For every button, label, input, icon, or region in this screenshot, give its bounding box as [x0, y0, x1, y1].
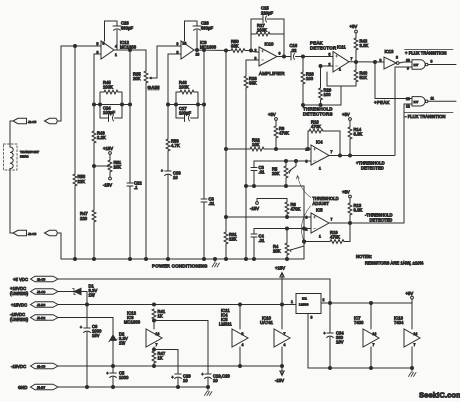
resistor R26 33K [244, 60, 257, 259]
svg-text:+5 VDC: +5 VDC [13, 277, 28, 282]
junction R5 wiper top [295, 160, 298, 163]
opamp power IC10 UA741 [260, 305, 290, 367]
svg-text:7: 7 [351, 57, 353, 61]
resistor R9 470K [274, 120, 289, 149]
svg-text:1K: 1K [158, 356, 163, 361]
power +5V terminal [406, 291, 414, 303]
svg-text:J2-C5: J2-C5 [28, 120, 37, 124]
wire logic gnd rail [308, 367, 412, 369]
svg-text:3.3K: 3.3K [360, 43, 369, 48]
junction rail R31 [225, 258, 228, 261]
wire R41 node to filter [154, 320, 208, 322]
wire IC11 pin2 [321, 65, 334, 67]
junction R31 tap [225, 49, 228, 52]
junction net out [129, 103, 132, 106]
power arrow +15V [275, 266, 285, 305]
svg-text:TRANSPORT: TRANSPORT [20, 150, 39, 154]
svg-text:51K: 51K [360, 75, 368, 80]
wire +peak [375, 62, 412, 99]
wire network2 mid [168, 104, 204, 106]
svg-text:4: 4 [284, 343, 286, 347]
svg-text:- FLUX TRANSITION: - FLUX TRANSITION [405, 114, 446, 119]
svg-text:+15V: +15V [103, 146, 113, 151]
wire pin1 bus [327, 72, 356, 86]
svg-text:220pF: 220pF [261, 11, 274, 16]
junction lgnd 7400 [370, 367, 373, 370]
svg-text:DETECTORS: DETECTORS [303, 112, 333, 117]
power -15V threshold [250, 199, 287, 212]
wire pin9 riser [394, 67, 396, 156]
op-amp IC11 peak detector [329, 45, 353, 73]
junction IC12 fb left [93, 103, 96, 106]
wire GND rail [58, 386, 208, 388]
svg-text:2: 2 [306, 228, 308, 232]
junction net2 left [175, 103, 178, 106]
junction pin7 branch [153, 348, 156, 351]
inverter IC13 [380, 49, 400, 69]
junction rail R47 [93, 258, 96, 261]
potentiometer R35 20K GAIN [133, 50, 160, 259]
svg-text:DETECTED: DETECTED [370, 218, 393, 223]
wire IC5 output [329, 222, 404, 224]
comparator IC5 [306, 208, 333, 239]
svg-text:100: 100 [306, 76, 314, 81]
capacitor C15 220pF feedback [251, 6, 284, 51]
svg-text:33K: 33K [249, 81, 257, 86]
svg-text:100: 100 [324, 92, 332, 97]
svg-text:14: 14 [373, 332, 377, 336]
resistor R29 100 [319, 66, 332, 105]
svg-text:3: 3 [103, 42, 105, 46]
junction net right [121, 103, 124, 106]
svg-text:10: 10 [183, 378, 188, 383]
junction pin2 R4 [286, 227, 289, 230]
regulator IC1 LM309 [291, 294, 325, 320]
junction IC8 fb right col [196, 49, 199, 52]
resistor R58 22K [73, 46, 86, 259]
power +5V R9 [268, 112, 277, 120]
wire mid bus [246, 185, 304, 187]
connector J1-C8 -15VDC [11, 363, 58, 369]
resistor R13 3.3K [348, 198, 362, 223]
resistor R6 470K [285, 202, 301, 217]
svg-text:14: 14 [414, 332, 418, 336]
junction R13 node [349, 222, 352, 225]
svg-text:IC4: IC4 [316, 140, 323, 145]
svg-text:+5V: +5V [268, 112, 276, 117]
svg-text:680pF: 680pF [121, 26, 134, 31]
wire IC4 pin3 [254, 160, 311, 162]
svg-text:7400: 7400 [354, 320, 364, 325]
capacitor C27 100pF [176, 106, 198, 122]
wire nand2 pin12 [404, 103, 412, 105]
resistor R18 470K [308, 120, 340, 156]
svg-text:470K: 470K [311, 124, 321, 129]
svg-text:6: 6 [279, 52, 281, 56]
svg-text:+: + [107, 372, 109, 376]
svg-text:10V: 10V [336, 340, 344, 345]
wire -15V rail [58, 365, 282, 367]
resistor R56 4.7K [166, 139, 180, 172]
resistor R27 100K feedback [251, 23, 284, 36]
svg-text:J1-C5: J1-C5 [37, 278, 46, 282]
potentiometer R51 20K [94, 146, 122, 188]
comparator power IC11 IC4 IC5 LM311 [219, 305, 248, 367]
wire into IC10 pin2 [251, 51, 259, 53]
svg-text:1: 1 [319, 235, 321, 239]
capacitor C6 1000 15V [80, 305, 102, 388]
junction rail C22 [129, 258, 132, 261]
capacitor C8 .01 [201, 197, 215, 260]
wire out column to network [129, 50, 131, 105]
resistor R47 1K power [152, 347, 166, 366]
svg-text:13: 13 [406, 97, 410, 101]
svg-text:-15V: -15V [250, 206, 259, 211]
junction R6 bottom [286, 216, 289, 219]
svg-text:IC7: IC7 [414, 100, 419, 104]
junction R28 bottom [302, 104, 305, 107]
svg-text:MC1303: MC1303 [124, 320, 141, 325]
svg-text:2: 2 [255, 49, 257, 53]
junction pin3 tap [225, 216, 228, 219]
resistor R47 220 [80, 166, 96, 259]
junction rail R35 [145, 258, 148, 261]
junction IC10 out [283, 55, 286, 58]
svg-text:POWER CONDITIONING: POWER CONDITIONING [152, 264, 208, 269]
junction gnd C5 [112, 386, 115, 389]
junction input node [74, 45, 77, 48]
wire IC13 out to nand [399, 62, 412, 63]
junction R5 top [285, 160, 288, 163]
svg-text:+: + [324, 332, 326, 336]
svg-text:33K: 33K [231, 44, 239, 49]
wire head lower lead [9, 169, 11, 233]
junction offset node [93, 165, 96, 168]
svg-text:IC1: IC1 [302, 297, 307, 301]
svg-text:3: 3 [329, 53, 331, 57]
svg-text:220: 220 [80, 216, 88, 221]
capacitor C4 .01 [251, 229, 265, 260]
svg-text:20K: 20K [133, 76, 141, 81]
svg-text:8: 8 [396, 56, 398, 60]
junction rail R41 [153, 303, 156, 306]
junction R28 top [302, 55, 305, 58]
svg-text:20K: 20K [273, 249, 281, 254]
svg-text:3.3K: 3.3K [354, 208, 363, 213]
wire IC10 pin3 [246, 59, 259, 61]
gate power IC7 7400 [354, 303, 379, 368]
svg-text:9: 9 [380, 59, 382, 63]
wire +5V out rail [321, 302, 412, 304]
junction rail C4 [253, 258, 256, 261]
potentiometer R5 20K [272, 161, 296, 186]
junction rail C8 [203, 258, 206, 261]
svg-text:+PEAK: +PEAK [374, 100, 390, 105]
junction R41 branch [153, 319, 156, 322]
junction rail R26 [245, 258, 248, 261]
junction +5 C34 [329, 302, 332, 305]
svg-text:J1-C8: J1-C8 [37, 365, 46, 369]
junction IC8 out down [203, 49, 206, 52]
svg-text:7404: 7404 [394, 320, 404, 325]
svg-text:+ FLUX TRANSITION: + FLUX TRANSITION [405, 51, 447, 56]
svg-text:20K: 20K [272, 171, 280, 176]
junction pin2 R29 [319, 65, 322, 68]
svg-text:SeekIC.com: SeekIC.com [419, 391, 460, 400]
op-amp IC8 MC1303 [177, 40, 217, 59]
wire gain wiper to IC8 [157, 46, 181, 78]
svg-text:+5V: +5V [342, 112, 350, 117]
svg-text:J1-D7: J1-D7 [37, 386, 46, 390]
junction IC12 out down [129, 49, 132, 52]
resistor R43 3.3K [354, 33, 368, 62]
wire pin12 riser [403, 104, 405, 223]
junction -15 end [281, 365, 284, 368]
svg-text:IC5: IC5 [316, 208, 323, 213]
svg-text:3.3K: 3.3K [354, 132, 363, 137]
svg-text:(UNREG): (UNREG) [10, 291, 29, 296]
svg-text:+15VDC: +15VDC [11, 303, 27, 308]
wire J2-C3 to ground rail [60, 233, 62, 259]
svg-text:IC10: IC10 [265, 42, 275, 47]
connector J2-C5 right [45, 118, 62, 123]
wire power conditioning rail [61, 258, 304, 260]
wire IC8 out column [203, 50, 205, 199]
svg-text:(UNREG): (UNREG) [10, 317, 29, 322]
junction gnd C6 [86, 386, 89, 389]
junction R32 tap [225, 148, 228, 151]
svg-text:10: 10 [173, 175, 178, 180]
connector J2-C3 right [45, 230, 62, 235]
junction rail C38 [167, 258, 170, 261]
svg-text:3: 3 [311, 316, 313, 320]
svg-text:IC13: IC13 [385, 49, 395, 54]
power +5V R14 [342, 112, 351, 120]
svg-text:MC1303: MC1303 [120, 45, 137, 50]
resistor R19 470K [304, 223, 350, 243]
junction -15 R47 [153, 365, 156, 368]
svg-text:GAIN: GAIN [148, 85, 160, 90]
wire IC11 output [349, 61, 384, 63]
junction R9 bottom [275, 148, 278, 151]
junction -15 D2 [112, 365, 115, 368]
svg-text:-15VDC: -15VDC [11, 364, 26, 369]
svg-text:7: 7 [414, 343, 416, 347]
op-amp IC10 amplifier [255, 42, 285, 77]
svg-text:UA741: UA741 [260, 320, 274, 325]
junction mid bus R5 [285, 185, 288, 188]
connector J1-D2 -18VDC [10, 312, 58, 322]
wire -18vdc feed [58, 317, 113, 319]
svg-text:+: + [202, 373, 204, 377]
svg-text:DETECTOR: DETECTOR [310, 46, 336, 51]
capacitor C16 .02 [290, 43, 334, 60]
op-amp IC12 MC1303 [97, 40, 137, 59]
wire mid bus drop [303, 186, 305, 259]
wire IC12 output [114, 49, 146, 51]
power arrow -15V [275, 366, 284, 383]
capacitor C38 10 [161, 169, 181, 259]
svg-text:LM311: LM311 [219, 322, 232, 327]
svg-text:100pF: 100pF [179, 111, 192, 116]
wire network mid [94, 104, 130, 106]
svg-text:2.2K: 2.2K [97, 135, 106, 140]
svg-text:4.7K: 4.7K [171, 143, 180, 148]
capacitor C3 .01 [251, 161, 265, 186]
svg-text:.01: .01 [259, 170, 266, 175]
junction net2 right [197, 103, 200, 106]
svg-text:100pF: 100pF [103, 110, 116, 115]
svg-text:GND: GND [18, 385, 27, 390]
junction rail UA741 [281, 303, 284, 306]
junction pin8 mid [167, 103, 170, 106]
comparator IC4 [306, 140, 333, 171]
svg-text:7: 7 [373, 343, 375, 347]
svg-text:100K: 100K [103, 85, 113, 90]
svg-text:J1-C6: J1-C6 [37, 290, 46, 294]
svg-text:2: 2 [306, 148, 308, 152]
wire IC4 pin2 [226, 148, 311, 150]
svg-text:IC11: IC11 [337, 45, 346, 50]
svg-text:8: 8 [242, 332, 244, 336]
svg-text:10K: 10K [252, 142, 260, 147]
svg-text:5: 5 [97, 42, 99, 46]
junction pin2 wiper [303, 227, 306, 230]
junction R43 node [355, 61, 358, 64]
ground symbol mid [205, 387, 213, 396]
svg-text:1: 1 [291, 300, 293, 304]
capacitor C19 C20 10 [202, 321, 231, 388]
wire nand1 pin9 [395, 66, 412, 68]
svg-text:10: 10 [213, 378, 218, 383]
diode D1 3.3V zener [58, 284, 97, 305]
resistor R14 3.3K [348, 120, 362, 155]
capacitor C29 10 [154, 350, 191, 388]
svg-text:100K: 100K [257, 28, 267, 33]
junction R14 node [349, 154, 352, 157]
junction net2 out [203, 103, 206, 106]
svg-text:-15V: -15V [103, 183, 112, 188]
svg-text:HEAD: HEAD [20, 155, 29, 159]
svg-text:680pF: 680pF [201, 26, 214, 31]
svg-text:J1-D2: J1-D2 [37, 316, 46, 320]
svg-text:2: 2 [323, 298, 325, 302]
svg-text:+15V: +15V [275, 266, 285, 271]
junction rail R4 [286, 258, 289, 261]
svg-text:22K: 22K [229, 237, 237, 242]
svg-text:7: 7 [156, 343, 158, 347]
svg-text:+5V: +5V [350, 24, 358, 29]
resistor R50 33K [231, 39, 251, 52]
wire pin8 column [167, 54, 169, 139]
capacitor C5 1000 [107, 366, 130, 387]
svg-text:100K: 100K [179, 85, 189, 90]
svg-text:.02: .02 [291, 48, 298, 53]
wire IC5 pin2 [254, 228, 311, 230]
svg-text:3: 3 [306, 216, 308, 220]
svg-text:1: 1 [339, 68, 341, 72]
svg-text:+5V: +5V [342, 190, 350, 195]
svg-text:RESISTORS ARE 1/4W, ±10%: RESISTORS ARE 1/4W, ±10% [365, 261, 424, 266]
wire head upper lead [9, 121, 11, 147]
svg-text:7: 7 [331, 218, 333, 222]
potentiometer R4 20K [273, 229, 304, 260]
inverter power IC13 7404 [394, 303, 420, 368]
svg-text:470K: 470K [279, 131, 289, 136]
label -flux transition [405, 113, 454, 120]
junction gnd C19 [207, 386, 210, 389]
connector J2-C5 left [10, 118, 27, 123]
svg-text:.01: .01 [209, 201, 216, 206]
svg-text:+: + [172, 376, 174, 380]
svg-text:9: 9 [407, 67, 409, 71]
svg-text:22K: 22K [78, 179, 86, 184]
junction rail LM311 [239, 303, 242, 306]
wire LM309 pin3 gnd [307, 314, 309, 369]
nand gate IC7 bottom [406, 97, 434, 109]
wire +5vdc feed [58, 279, 330, 303]
label +flux transition [405, 50, 454, 56]
svg-text:9: 9 [177, 42, 179, 46]
capacitor C26 680pF [185, 21, 214, 51]
wire IC5 pin3 [226, 216, 311, 218]
wire IC4 output [329, 155, 394, 157]
resistor R41 1K [152, 309, 166, 329]
svg-text:12: 12 [406, 105, 410, 109]
connector J1-D3 +15VDC [11, 302, 58, 308]
svg-text:+5V: +5V [406, 291, 414, 296]
svg-text:1W: 1W [89, 293, 95, 298]
wire fb right leg [283, 19, 285, 57]
junction gnd C29 [177, 386, 180, 389]
diode D2 3.3V zener [109, 318, 128, 367]
connector J1-D7 GND [18, 384, 58, 390]
capacitor C34 330 10V [324, 303, 345, 368]
svg-text:1: 1 [319, 167, 321, 171]
connector J1-C5 +5VDC [13, 276, 58, 282]
nand gate IC7 top [406, 59, 433, 71]
wire J2-C5 to IC12 input [61, 46, 101, 121]
resistor R45 100K [100, 80, 122, 118]
junction R29 bottom [319, 104, 322, 107]
svg-text:10: 10 [183, 42, 187, 46]
wire pin6 column [93, 54, 95, 131]
resistor R32 10K [250, 138, 264, 151]
resistor R48 100K [176, 80, 198, 118]
svg-text:.1: .1 [134, 185, 138, 190]
svg-text:15V: 15V [92, 333, 100, 338]
junction R19 left [303, 240, 306, 243]
svg-text:ADJUST: ADJUST [313, 201, 330, 206]
resistor R28 100 [301, 57, 314, 106]
connector J2-C3 left [10, 230, 27, 235]
resistor R46 2.2K [92, 131, 106, 167]
wire R31 column [225, 51, 227, 260]
svg-text:1W: 1W [119, 341, 125, 346]
svg-text:IC7: IC7 [414, 63, 419, 67]
junction R18 left [307, 148, 310, 151]
resistor R40 51K [354, 62, 368, 86]
svg-text:1K: 1K [158, 314, 163, 319]
junction R18 right [339, 154, 342, 157]
ground rail symbol [212, 258, 220, 268]
ground symbol logic [409, 367, 417, 377]
svg-text:NOTES:: NOTES: [356, 254, 372, 259]
wire +15V rail [58, 304, 296, 306]
capacitor C22 .1 [127, 105, 142, 260]
power +5V R13 [342, 190, 351, 198]
wire IC8 pin8 [168, 53, 181, 55]
